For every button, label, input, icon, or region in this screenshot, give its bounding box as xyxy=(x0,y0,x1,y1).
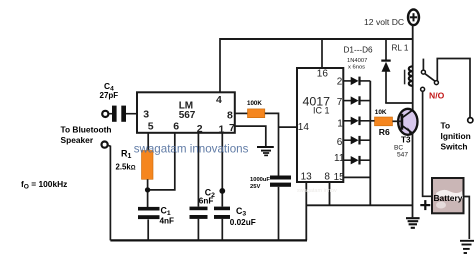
svg-text:C3: C3 xyxy=(236,206,246,218)
relay blade xyxy=(425,74,435,82)
svg-text:25V: 25V xyxy=(250,184,260,190)
wire LM567 pin4 riser xyxy=(219,38,221,93)
svg-text:7: 7 xyxy=(229,122,235,134)
battery B1 xyxy=(432,178,464,213)
label 1000uF 25V xyxy=(250,177,270,190)
node ignition terminal xyxy=(468,118,473,123)
svg-text:5: 5 xyxy=(148,120,154,132)
resistor 100K xyxy=(248,109,265,118)
diode D5 xyxy=(343,156,370,165)
label 1N4007 x 6nos xyxy=(347,58,367,70)
diode D6 flyback xyxy=(381,38,412,103)
svg-text:x 6nos: x 6nos xyxy=(348,64,365,70)
wire R6 to base xyxy=(393,120,401,122)
label C1 4nF xyxy=(160,205,175,225)
wire speaker terminal 2 down xyxy=(108,145,111,240)
ground pin7 xyxy=(257,147,274,155)
inductor relay coil RL1 xyxy=(409,66,413,86)
svg-text:10K: 10K xyxy=(375,109,387,116)
wire 4017 pin13 drop xyxy=(305,182,307,240)
wire emitter to ground xyxy=(412,133,414,217)
wire 4017 pin15 branch xyxy=(343,176,370,178)
wire diode cathode bus xyxy=(369,81,371,205)
svg-text:To: To xyxy=(441,121,451,131)
wire N/O to battery positive xyxy=(423,91,432,196)
svg-text:Ignition: Ignition xyxy=(441,131,471,141)
diode D3 xyxy=(343,117,370,126)
resistor R6 10K xyxy=(375,117,393,126)
svg-text:100K: 100K xyxy=(247,100,262,107)
transistor T3 BC547 xyxy=(398,109,417,135)
node speaker terminal 2 xyxy=(102,142,108,148)
svg-text:13: 13 xyxy=(301,172,313,183)
wire 4017 pin16 riser xyxy=(321,38,323,69)
svg-text:R1: R1 xyxy=(121,148,132,160)
wire diode bus to R6 xyxy=(370,120,375,122)
ground emitter xyxy=(406,218,420,228)
svg-text:7: 7 xyxy=(337,97,343,108)
svg-text:6: 6 xyxy=(173,120,179,132)
svg-text:Battery: Battery xyxy=(434,193,463,203)
label battery plus xyxy=(420,200,430,210)
diode D4 xyxy=(343,136,370,145)
wire bottom rail xyxy=(110,239,307,241)
svg-text:RL 1: RL 1 xyxy=(392,44,409,53)
IC U2 4017 xyxy=(297,68,345,183)
wire LM567 pin8 to 100K xyxy=(235,112,248,114)
capacitor C3 xyxy=(214,207,230,241)
svg-text:BC: BC xyxy=(394,145,403,152)
svg-text:16: 16 xyxy=(317,69,329,80)
wire LM567 pin7 to ground xyxy=(235,126,266,146)
relay pole contact circle xyxy=(421,70,425,74)
capacitor C2 xyxy=(190,207,208,241)
relay core bar xyxy=(404,70,406,85)
svg-text:R6: R6 xyxy=(379,127,390,137)
svg-text:6: 6 xyxy=(337,137,343,148)
wire blade to ignition terminal xyxy=(437,59,470,118)
label To Bluetooth Speaker xyxy=(61,124,112,145)
svg-text:547: 547 xyxy=(397,152,408,159)
svg-text:14: 14 xyxy=(298,122,310,133)
svg-text:fO = 100kHz: fO = 100kHz xyxy=(21,179,67,191)
svg-text:2: 2 xyxy=(337,77,343,88)
label BC 547 xyxy=(394,145,408,159)
node speaker terminal 1 xyxy=(102,111,108,117)
svg-text:swagatam innov: swagatam innov xyxy=(297,188,337,194)
capacitor 1000uF 25V xyxy=(270,176,291,241)
svg-text:Speaker: Speaker xyxy=(61,135,94,145)
svg-text:8: 8 xyxy=(324,172,330,183)
svg-text:4nF: 4nF xyxy=(160,216,175,225)
svg-text:D1---D6: D1---D6 xyxy=(344,46,374,55)
svg-text:8: 8 xyxy=(227,110,233,122)
label C3 0.02uF xyxy=(230,206,256,227)
wire R1 bottom to C1 xyxy=(147,179,149,207)
diode D2 xyxy=(343,96,370,105)
wire node to 4017 pin14 xyxy=(279,126,298,128)
svg-text:2.5kΩ: 2.5kΩ xyxy=(116,162,136,171)
relay N/O contact circle xyxy=(421,87,425,91)
svg-text:4: 4 xyxy=(216,94,222,106)
svg-text:27pF: 27pF xyxy=(100,91,119,100)
relay pole stub xyxy=(422,59,424,71)
wire LM567 pin5 to R1 xyxy=(147,133,149,151)
wire top positive rail xyxy=(220,38,414,40)
node junction R1 C1 pin6 xyxy=(145,187,150,192)
svg-text:Switch: Switch xyxy=(441,142,468,152)
svg-text:0.02uF: 0.02uF xyxy=(230,218,256,227)
svg-text:11: 11 xyxy=(334,153,345,164)
svg-text:12 volt DC: 12 volt DC xyxy=(364,17,404,27)
node 12V supply terminal xyxy=(408,9,419,25)
svg-text:T3: T3 xyxy=(401,136,411,145)
wire ground bus xyxy=(306,204,412,206)
svg-text:IC 1: IC 1 xyxy=(313,106,330,116)
capacitor C1 xyxy=(138,207,160,241)
resistor R1 2.5k xyxy=(142,151,154,180)
svg-text:567: 567 xyxy=(179,110,196,121)
node junction pin1 xyxy=(219,188,225,194)
IC U1 LM567 xyxy=(137,92,235,135)
svg-text:swagatam innovations: swagatam innovations xyxy=(134,143,249,156)
label C2 6nF xyxy=(199,187,215,205)
svg-text:6nF: 6nF xyxy=(199,196,214,205)
wire battery negative to ground xyxy=(464,197,470,240)
wire 12V down to relay and collector xyxy=(412,25,414,110)
svg-text:C1: C1 xyxy=(161,205,171,217)
wire LM567 pin1 to C3 xyxy=(221,133,223,207)
wire 4017 pin8 drop xyxy=(329,182,331,205)
svg-text:3: 3 xyxy=(143,108,149,120)
svg-text:N/O: N/O xyxy=(429,91,445,101)
wire 100K to node and down to 1000uF xyxy=(265,113,279,175)
relay blade tip circle xyxy=(434,81,438,85)
svg-text:1N4007: 1N4007 xyxy=(347,58,367,64)
wire LM567 pin6 xyxy=(150,133,175,190)
diode D1 xyxy=(343,77,370,86)
capacitor C4 xyxy=(109,106,138,122)
ground battery negative xyxy=(460,241,474,253)
wire LM567 pin2 to C2 xyxy=(197,133,199,207)
label To Ignition Switch xyxy=(441,121,471,152)
svg-text:To Bluetooth: To Bluetooth xyxy=(61,124,112,134)
svg-text:1: 1 xyxy=(337,119,343,130)
svg-text:1000uF: 1000uF xyxy=(250,177,270,183)
